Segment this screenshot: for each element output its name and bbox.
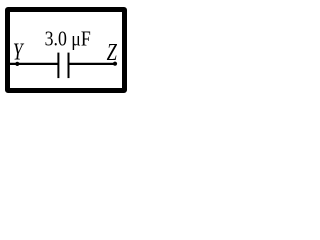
svg-text:Y: Y	[13, 38, 25, 66]
svg-text:3.0 μF: 3.0 μF	[45, 28, 91, 51]
svg-text:Z: Z	[107, 38, 118, 65]
